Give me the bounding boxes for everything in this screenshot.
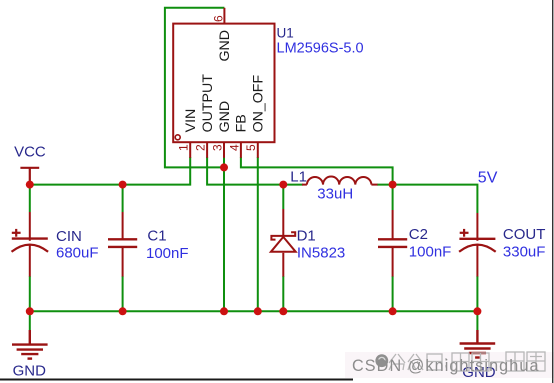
junction OUTPUT at D1: [279, 181, 287, 189]
svg-text:5V: 5V: [478, 169, 498, 186]
wire pin5 ON_OFF down to ground rail: [257, 157, 259, 311]
svg-text:33uH: 33uH: [317, 186, 353, 203]
wire pin6 loop: [165, 8, 225, 168]
svg-text:C2: C2: [409, 226, 428, 243]
wire COUT bottom to ground rail: [476, 276, 478, 311]
wire ground rail: [30, 310, 478, 312]
svg-text:4: 4: [227, 144, 241, 151]
svg-text:U1: U1: [277, 25, 294, 40]
svg-text:ON_OFF: ON_OFF: [251, 75, 267, 133]
wire D1 top: [282, 185, 284, 209]
wire pin3 GND down to ground rail: [223, 157, 225, 311]
svg-text:2: 2: [194, 144, 208, 151]
svg-text:VCC: VCC: [14, 143, 46, 160]
ground symbol right: [460, 330, 496, 358]
svg-text:FB: FB: [234, 114, 250, 132]
svg-text:100nF: 100nF: [409, 244, 452, 261]
junction VCC rail at CIN: [26, 181, 34, 189]
wire L1 right to 5V corner down to COUT: [377, 185, 477, 213]
junction rail at CIN bottom: [26, 307, 34, 315]
wire CIN bottom to ground rail: [29, 276, 31, 311]
svg-text:GND: GND: [217, 101, 233, 133]
wire C2 top: [392, 185, 394, 210]
svg-text:6: 6: [212, 15, 226, 22]
svg-text:CIN: CIN: [56, 228, 82, 245]
svg-text:3: 3: [210, 144, 224, 151]
svg-text:D1: D1: [297, 227, 316, 244]
watermark chinese text outline glyphs: [389, 352, 545, 371]
wire C2 bottom: [392, 276, 394, 311]
capacitor CIN 680uF polarized: [12, 212, 49, 277]
svg-text:C1: C1: [147, 227, 166, 244]
watermark pink background: [345, 352, 554, 378]
U1 pin 1 marker bubble: [175, 135, 180, 140]
svg-text:5: 5: [244, 144, 258, 151]
wire D1 bottom: [282, 276, 284, 311]
svg-text:L1: L1: [290, 169, 307, 186]
svg-text:COUT: COUT: [503, 226, 546, 243]
junction rail at COUT bottom: [473, 307, 481, 315]
junction rail at C1 bottom: [119, 307, 127, 315]
U1 pin 2 stub: [206, 142, 208, 158]
wire pin4 FB to 5V node: [241, 157, 393, 185]
wire VCC stem down to CIN: [29, 185, 31, 212]
svg-text:100nF: 100nF: [146, 245, 189, 262]
wire pin1 VIN to VCC rail: [30, 157, 190, 185]
junction GND loop at pin3: [220, 163, 228, 171]
wire pin2 OUTPUT to L1 left: [207, 157, 303, 185]
junction rail at pin5 bottom: [254, 307, 262, 315]
inductor L1 33uH: [302, 177, 378, 185]
junction VCC rail at C1: [119, 181, 127, 189]
svg-text:VIN: VIN: [183, 109, 199, 133]
black bottom bar: [0, 379, 353, 381]
svg-text:330uF: 330uF: [503, 243, 546, 260]
svg-text:GND: GND: [13, 362, 47, 379]
wire left GND stem green: [29, 311, 31, 330]
wire C1 top: [122, 185, 124, 212]
right edge border line: [552, 0, 553, 383]
U1 pin 6 stub: [223, 8, 225, 24]
svg-text:LM2596S-5.0: LM2596S-5.0: [277, 41, 364, 57]
svg-text:CSDN @knightsinghua: CSDN @knightsinghua: [352, 357, 540, 375]
U1 pin 4 stub: [240, 142, 242, 158]
U1 pin 5 stub: [257, 142, 259, 158]
svg-text:OUTPUT: OUTPUT: [200, 74, 216, 133]
junction rail at D1 bottom: [279, 307, 287, 315]
svg-text:1: 1: [177, 144, 191, 151]
U1 pin 1 stub: [189, 142, 191, 158]
capacitor C1 100nF: [108, 212, 137, 277]
capacitor C2 100nF: [378, 210, 407, 277]
capacitor COUT 330uF polarized: [459, 213, 496, 277]
VCC power symbol: [20, 168, 39, 185]
junction rail at pin3 bottom: [220, 307, 228, 315]
svg-text:680uF: 680uF: [56, 245, 99, 262]
svg-text:GND: GND: [217, 30, 233, 62]
junction rail at C2 bottom: [389, 307, 397, 315]
junction 5V node at L1 right: [389, 181, 397, 189]
ground symbol left: [12, 330, 48, 359]
U1 pin 3 stub: [223, 142, 225, 158]
svg-text:IN5823: IN5823: [297, 244, 345, 261]
wire right GND stem green: [476, 311, 478, 330]
wire C1 bottom: [122, 276, 124, 311]
watermark logo circle: [375, 354, 388, 367]
diode D1 IN5823 schottky: [271, 209, 296, 277]
IC U1 LM2596S-5.0 body: [173, 24, 274, 143]
